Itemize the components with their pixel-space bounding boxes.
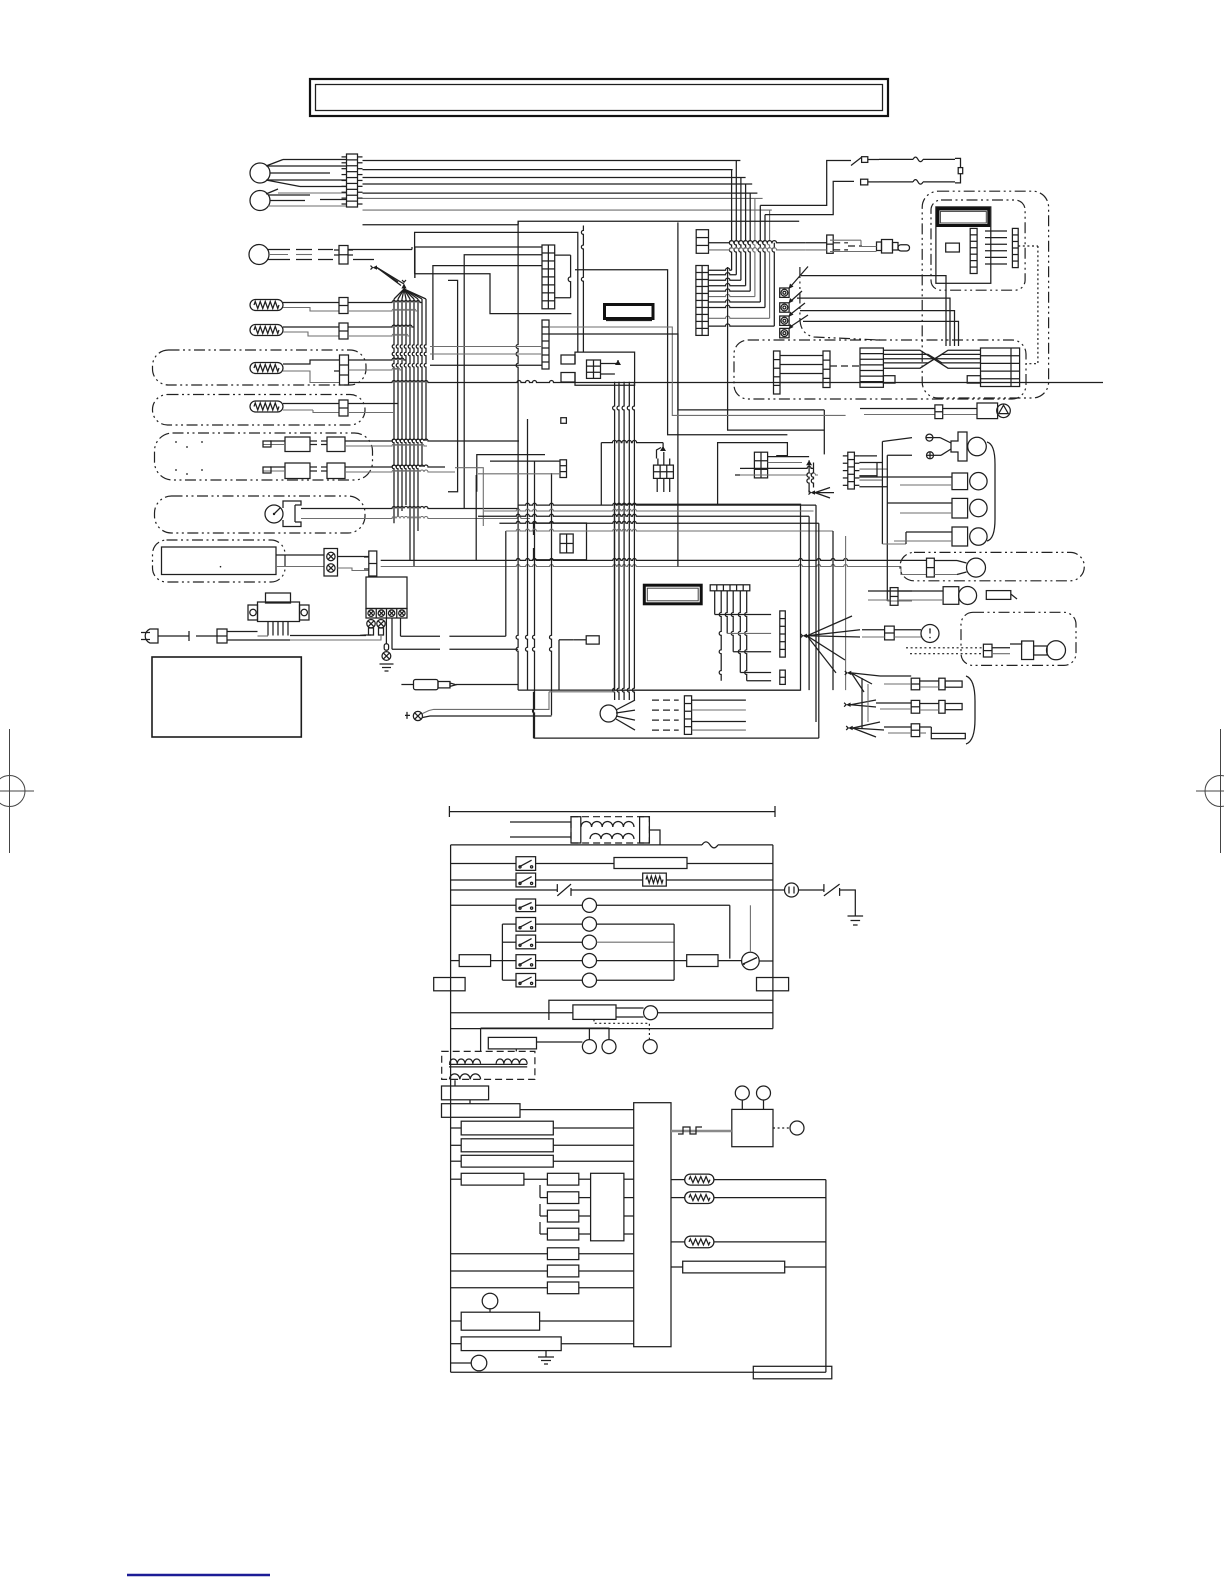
- pcb part TF2: [559, 636, 599, 644]
- pcb ladder R2: [780, 670, 786, 684]
- oven lamp enclosure: [900, 552, 1084, 580]
- junction node J6: [846, 722, 884, 737]
- bottom bus: [451, 1371, 826, 1373]
- thermal cutout TC4: [780, 315, 959, 346]
- buzzer box drop: [0, 0, 1, 1]
- vertical x816: [815, 505, 817, 722]
- lamp assembly: [451, 1005, 773, 1020]
- bottom long rect: [451, 1337, 634, 1351]
- thermal fuse TF: [401, 680, 518, 690]
- cpu: [634, 1103, 671, 1347]
- door switch assembly A: [561, 352, 635, 385]
- switch S1: [851, 157, 879, 166]
- long wire y738: [534, 737, 819, 739]
- heater H1 wires right: [348, 301, 422, 312]
- lamp dotted: [594, 1019, 649, 1040]
- dash-dot enclosure thermostat: [155, 496, 366, 533]
- humidity dotted wires: [906, 648, 983, 654]
- turntable enclosure: [734, 340, 1026, 399]
- board connector CN-E: [696, 230, 708, 254]
- thermostat TH1: [265, 505, 283, 523]
- damper motor: [894, 625, 939, 643]
- oven lamp connector: [927, 558, 935, 577]
- fan motor FM1: [250, 163, 270, 183]
- spider connector: [684, 696, 691, 735]
- heater oval1: [671, 1174, 826, 1185]
- wire into CN-C row2: [415, 247, 542, 278]
- board rect3: [451, 1155, 634, 1167]
- humidity enclosure: [961, 612, 1076, 665]
- motor M1: [536, 898, 730, 912]
- junction node J4: [845, 671, 880, 692]
- wire v457: [448, 280, 458, 491]
- board rect4: [451, 1173, 548, 1185]
- long wire y523: [499, 521, 818, 523]
- turntable motor TM: [967, 348, 1019, 387]
- key rect1: [547, 1173, 590, 1185]
- fuse F1: [879, 157, 955, 162]
- wire to interlock switch: [765, 181, 854, 214]
- control panel inner enclosure: [931, 200, 1025, 290]
- vertical wire V3: [533, 461, 535, 738]
- door switch assembly B: [601, 440, 673, 505]
- wire into CN-C row4: [433, 266, 542, 360]
- fuse bracket: [955, 158, 963, 183]
- vertical x809 lower: [808, 516, 810, 690]
- inner top line: [549, 1000, 773, 1020]
- hv capacitor CB: [366, 577, 407, 618]
- bottom right rect: [753, 1366, 832, 1379]
- heater H1 wires: [283, 303, 339, 312]
- wire corner gray: [549, 327, 846, 415]
- psu rect2: [442, 1104, 634, 1118]
- hv transformer T1: [248, 593, 309, 636]
- thermal cutout TC3: [780, 303, 955, 346]
- grill connector row3: [884, 724, 965, 739]
- micro switch MS2: [263, 463, 310, 479]
- board rect1: [451, 1121, 634, 1135]
- relay RY4: [502, 918, 535, 932]
- legend box: [152, 657, 301, 737]
- oven lamp bulb: [934, 558, 985, 577]
- door switch assembly C: [534, 523, 587, 560]
- wire over CN-C: [415, 232, 578, 351]
- decoration dots: [175, 441, 203, 475]
- lcd window: [938, 209, 989, 226]
- pcb wires right: [715, 615, 771, 681]
- board ladder CN-G: [843, 452, 860, 489]
- bottom circle: [451, 1355, 487, 1371]
- fan motor FM1 leads: [266, 160, 346, 187]
- connector CN-A ladder: [342, 154, 363, 207]
- temperature probe: [830, 240, 910, 254]
- right registration mark: [1196, 729, 1224, 853]
- relay RY6: [491, 955, 536, 969]
- turntable wires: [780, 356, 823, 383]
- wire corner left of CN-F: [575, 270, 787, 435]
- heater H4: [250, 401, 283, 412]
- wire v476: [477, 455, 545, 492]
- filter connector: [364, 551, 377, 576]
- oven lamp leads: [267, 250, 333, 260]
- control panel enclosure: [922, 191, 1048, 398]
- turntable coupler: [860, 348, 895, 387]
- heater H3 wires: [283, 360, 340, 383]
- power plug: [141, 629, 189, 643]
- long wire y505: [518, 503, 816, 505]
- board connector CN-F: [696, 266, 708, 336]
- heater oval3: [671, 1236, 826, 1248]
- key matrix rect: [591, 1173, 634, 1241]
- door switch A bundle: [613, 382, 635, 700]
- wires into CN-D: [430, 347, 542, 366]
- transformer2: [442, 1049, 535, 1080]
- lamp LP1: [930, 473, 987, 490]
- main pcb outline: [614, 504, 800, 690]
- relay box K: [718, 443, 818, 505]
- key button: [946, 243, 960, 252]
- buzzer dotted: [773, 1121, 804, 1135]
- wire w2: [415, 274, 572, 314]
- pcb lcd display: [605, 305, 654, 321]
- heater H2: [250, 325, 283, 336]
- wire to door monitor switch: [760, 161, 851, 206]
- line N break: [451, 884, 785, 896]
- main switch SW: [742, 905, 773, 970]
- junction node J7: [809, 488, 835, 499]
- buzzer lamp feed wires: [859, 438, 930, 601]
- ground lower: [848, 916, 864, 925]
- heater H1: [250, 300, 283, 311]
- pcb ladder R1: [780, 611, 786, 657]
- convection connector: [868, 588, 898, 606]
- magnetron MG: [162, 547, 277, 575]
- lamp LP3: [930, 527, 987, 546]
- pcb lcd display 2: [644, 585, 701, 604]
- vertical wire V4: [550, 473, 552, 715]
- dash-dot enclosure switches: [155, 433, 373, 480]
- oven lamp wires right: [348, 247, 415, 278]
- heater H4 wires: [283, 404, 339, 413]
- motor M4: [536, 954, 687, 968]
- fuse rect right: [687, 955, 742, 967]
- pump feed wires: [860, 409, 935, 415]
- panel dotted wire: [1018, 246, 1038, 364]
- cord to terminal: [290, 636, 380, 641]
- small part P1: [561, 418, 567, 424]
- dash-dot enclosure grill upper: [153, 350, 367, 385]
- humidity plug: [992, 641, 1066, 660]
- lower ground: [538, 1351, 554, 1364]
- turntable ladder TL2: [823, 351, 830, 388]
- relay RY5: [502, 935, 535, 949]
- N break 2: [824, 884, 855, 916]
- thermal cutout TC1: [780, 267, 946, 347]
- filter wires: [338, 557, 369, 571]
- relay RY3: [451, 899, 536, 912]
- motor M2: [536, 917, 675, 931]
- fuse rect left: [451, 955, 491, 967]
- panel fan wires: [985, 231, 1007, 264]
- key rect5: [451, 1248, 634, 1260]
- relay RY1: [451, 857, 536, 871]
- junction node J3: [801, 616, 861, 673]
- relay RY2: [451, 873, 536, 887]
- key rect4: [540, 1222, 591, 1240]
- turntable crossing wires: [883, 350, 980, 368]
- spider dashed wires: [652, 700, 679, 730]
- outlet: [785, 883, 824, 897]
- pulse wire: [671, 1127, 732, 1134]
- buzzer circles: [735, 1086, 770, 1109]
- panel ladder L2: [1012, 228, 1018, 267]
- grill feed wires: [862, 678, 868, 728]
- vertical x818: [818, 523, 820, 738]
- left tab: [434, 978, 465, 991]
- key switch: [451, 1293, 634, 1330]
- long wire y516: [478, 514, 809, 516]
- heater H3: [250, 363, 283, 374]
- oven lamp OL: [249, 245, 269, 265]
- heater H2 wires: [283, 327, 339, 336]
- heater H2 connector: [339, 323, 348, 339]
- switch wires right: [370, 439, 519, 472]
- vertical wire V2: [526, 419, 528, 690]
- heater H2 wires right: [348, 325, 414, 336]
- board connector ladder CN-D: [542, 320, 549, 369]
- mid vertical wire bundle: [392, 289, 426, 567]
- wire into CN-C row3: [464, 255, 542, 509]
- crossover connector: [806, 235, 862, 253]
- junction node J1: [371, 265, 405, 285]
- indicator circles: [481, 1028, 658, 1054]
- terminal screws: [360, 620, 385, 641]
- line filter FL: [324, 549, 338, 577]
- motor M5: [536, 973, 675, 987]
- pump connector: [935, 405, 943, 419]
- pcb connector strip: [710, 585, 750, 591]
- crossover wires: [709, 241, 806, 250]
- display module: [936, 207, 991, 283]
- pump P: [977, 403, 1010, 419]
- pcb strip wires down: [715, 591, 747, 681]
- top bundle verticals into board connector: [708, 161, 774, 327]
- heater H3 connector: [340, 355, 349, 385]
- polarity plus: [927, 452, 942, 459]
- filter wires right: [381, 475, 927, 575]
- right drop: [825, 1180, 827, 1373]
- fuse F2: [879, 180, 955, 185]
- wide rect right: [671, 1261, 826, 1273]
- resistor load: [536, 873, 773, 886]
- relay feed vertical: [501, 924, 503, 980]
- wires right of relay box: [728, 267, 825, 493]
- long wire y511: [484, 509, 814, 511]
- dash-dot enclosure magnetron: [153, 540, 286, 582]
- psu rect1: [442, 1080, 489, 1104]
- top wire bundle horizontals: [363, 161, 772, 211]
- CN-G wires right: [859, 456, 887, 487]
- blue reference line: [127, 1574, 270, 1577]
- panel ladder L1: [970, 228, 977, 273]
- grill connector row2: [876, 700, 962, 713]
- lower fuse: [702, 842, 718, 848]
- lv transformer wires: [510, 822, 660, 845]
- micro switch MS2 mate: [310, 463, 385, 479]
- wire right of CN-C: [581, 226, 583, 352]
- grill bracket: [966, 676, 975, 744]
- humidity connector: [983, 644, 992, 657]
- top bundle wire8: [363, 224, 519, 226]
- thermostat wires: [301, 507, 530, 519]
- dash-dot enclosure grill lower: [153, 395, 366, 426]
- heater load: [536, 858, 773, 869]
- key rect6: [451, 1265, 634, 1277]
- key rect2: [540, 1185, 591, 1204]
- board connector ladder CN-C: [542, 245, 571, 309]
- motor M3: [536, 935, 675, 949]
- turntable ladder TL1: [774, 351, 781, 394]
- micro switch MS1 mate: [310, 437, 380, 452]
- heater H4 connector: [339, 400, 348, 416]
- ground screw G1: [380, 618, 394, 672]
- vertical wire V5: [558, 640, 560, 690]
- pump wires: [943, 409, 977, 415]
- motor bus vertical: [674, 905, 730, 980]
- junction node J2: [401, 280, 406, 289]
- indicator box: [488, 1037, 582, 1049]
- lower top bus: [449, 806, 775, 817]
- key rect7: [451, 1282, 634, 1294]
- spider wires right: [692, 700, 746, 730]
- key rect3: [540, 1204, 591, 1222]
- lv transformer: [571, 817, 649, 843]
- vertical wire V1: [516, 221, 518, 690]
- polarity minus: [926, 434, 940, 441]
- buzzer box: [732, 1109, 773, 1146]
- power cord: [196, 629, 290, 643]
- grill connector row1: [880, 676, 962, 690]
- long wire y690: [518, 690, 800, 738]
- door area dash-dot boundary: [800, 267, 880, 340]
- damper connector: [862, 626, 894, 640]
- vertical x833: [832, 531, 834, 690]
- wire corner black: [549, 334, 824, 410]
- heater H4 wires right: [348, 404, 824, 455]
- switch S2: [861, 179, 879, 185]
- right tab: [757, 978, 789, 991]
- relay RY7: [502, 974, 535, 987]
- fan motor FM2 leads: [266, 189, 346, 206]
- terminal wires: [392, 531, 518, 649]
- heater oval2: [671, 1192, 826, 1204]
- heater H1 connector: [339, 298, 348, 314]
- junction node J5: [844, 700, 876, 707]
- wire v483: [455, 468, 483, 526]
- turntable dashed link: [830, 365, 860, 367]
- buzzer leads: [940, 438, 951, 456]
- left registration mark: [0, 729, 34, 853]
- convection motor: [898, 587, 1017, 605]
- board rect2: [451, 1139, 634, 1152]
- component bracket: [987, 442, 995, 541]
- connector CN-B: [334, 246, 353, 265]
- thermal cutout TC2: [780, 291, 950, 346]
- small connector P2: [478, 460, 567, 478]
- chassis ground screw G2: [405, 692, 552, 721]
- heater H3 wires right: [349, 358, 1104, 383]
- buzzer BZ: [951, 432, 986, 461]
- micro switch MS1: [263, 437, 310, 452]
- lamp LP2: [930, 498, 987, 518]
- thermostat bracket: [283, 501, 301, 527]
- main loop box: [451, 845, 773, 1372]
- vertical x845: [845, 536, 847, 690]
- title box: [310, 79, 888, 116]
- wire v677: [677, 222, 679, 566]
- appliance plug spider: [600, 700, 635, 730]
- long wire y221: [518, 221, 799, 225]
- fan motor FM2: [250, 191, 270, 211]
- long wire y531: [506, 529, 833, 531]
- magnetron wires: [276, 555, 324, 567]
